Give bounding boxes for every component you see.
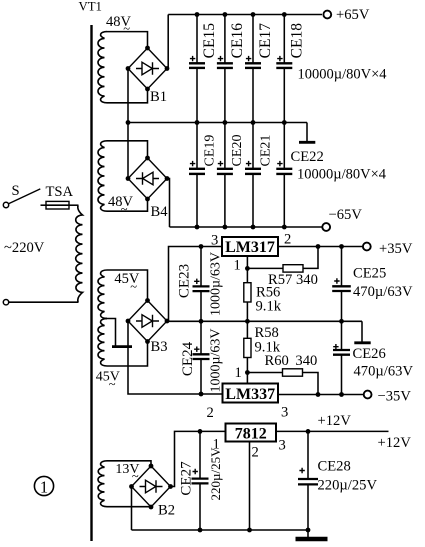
switch S blade <box>9 189 41 204</box>
svg-text:CE22: CE22 <box>291 149 324 165</box>
node CE15 top junction <box>195 12 200 17</box>
node CE22 bottom junction <box>282 225 287 230</box>
wire R60 to -35V row <box>303 373 319 395</box>
svg-text:CE27: CE27 <box>179 461 195 496</box>
svg-text:CE19: CE19 <box>202 135 217 167</box>
node CE27 top junction <box>198 429 203 434</box>
ground symbol (0V rail) <box>361 321 363 343</box>
svg-text:1: 1 <box>235 365 242 381</box>
capacitor CE24 <box>200 321 202 354</box>
node R60 bottom junction <box>316 392 321 397</box>
secondary winding 13V <box>98 461 107 507</box>
capacitor CE25 <box>341 247 343 287</box>
svg-text:CE24: CE24 <box>180 341 196 376</box>
fuse TSA <box>46 201 69 209</box>
node CE15 bottom junction <box>195 120 200 125</box>
node 7812 pin2 junction <box>247 528 252 533</box>
node R56/R58 junction <box>245 319 250 324</box>
node CE18 bottom junction <box>282 120 287 125</box>
bridge rectifier B2 <box>132 466 171 507</box>
node CE20 bottom junction <box>223 225 228 230</box>
secondary winding 45V #2 <box>98 319 107 366</box>
svg-text:3: 3 <box>279 438 286 454</box>
node CE26 bottom junction <box>339 392 344 397</box>
node CE16 top junction <box>223 12 228 17</box>
capacitor CE16 <box>224 15 226 64</box>
terminal +35V <box>363 243 371 251</box>
node CE25 top junction <box>339 244 344 249</box>
svg-text:~220V: ~220V <box>4 240 45 256</box>
resistor R57 340 <box>283 265 303 272</box>
terminal -35V <box>364 391 372 399</box>
svg-text:9.1k: 9.1k <box>256 299 282 315</box>
node R57 top junction <box>316 244 321 249</box>
wire -65V bus <box>170 226 322 228</box>
svg-text:CE16: CE16 <box>229 23 246 59</box>
node CE28 bottom junction <box>306 528 311 533</box>
terminal (AC input bottom) <box>3 300 8 305</box>
circled figure number 1 <box>34 476 53 495</box>
node CE24 bottom junction <box>199 392 204 397</box>
node CE27 bottom junction <box>198 528 203 533</box>
svg-text:R60 340: R60 340 <box>265 353 318 369</box>
wire bottom ground rail <box>132 529 309 531</box>
wire winding 13V bottom to B2 AC <box>107 506 151 508</box>
wire +65V bus <box>168 14 322 16</box>
capacitor CE28 <box>307 431 309 479</box>
wire 0V rail <box>169 320 363 322</box>
wire B4 - output down to -65V bus <box>167 179 170 228</box>
wire bottom AC input to primary winding <box>9 301 79 303</box>
capacitor CE27 <box>199 431 201 478</box>
svg-text:+12V: +12V <box>318 413 352 429</box>
regulator U1 LM317 <box>222 237 278 256</box>
wire winding 13V top to B2 AC <box>107 461 151 466</box>
svg-text:CE15: CE15 <box>201 23 218 59</box>
svg-text:10000µ/80V×4: 10000µ/80V×4 <box>298 67 388 83</box>
regulator U2 LM337 <box>223 384 279 403</box>
svg-text:+12V: +12V <box>378 435 412 451</box>
wire winding2 bottom to B4 AC <box>107 199 148 211</box>
svg-text:+65V: +65V <box>336 7 370 23</box>
wire B1 - output down to ground bus <box>127 69 129 123</box>
svg-text:TSA: TSA <box>46 184 74 200</box>
node CE23/CE24 junction <box>199 319 204 324</box>
svg-text:B1: B1 <box>150 89 167 105</box>
wire winding 45V-1 top to B3 AC <box>107 270 148 301</box>
capacitor CE22 <box>283 123 285 169</box>
svg-text:1: 1 <box>40 478 48 497</box>
svg-text:2: 2 <box>207 405 214 421</box>
capacitor CE17 <box>252 15 254 64</box>
ground symbol (bottom rail) <box>307 530 309 539</box>
svg-text:2: 2 <box>252 445 259 461</box>
svg-text:+35V: +35V <box>379 241 413 257</box>
svg-text:7812: 7812 <box>235 426 267 443</box>
svg-text:470µ/63V: 470µ/63V <box>354 363 414 379</box>
svg-text:LM317: LM317 <box>225 239 275 256</box>
svg-text:220µ/25V: 220µ/25V <box>208 447 223 501</box>
bridge rectifier B4 <box>128 158 167 199</box>
svg-text:CE18: CE18 <box>289 23 306 59</box>
node CE18 top junction <box>282 12 287 17</box>
svg-text:−65V: −65V <box>329 207 363 223</box>
svg-text:~: ~ <box>109 377 116 391</box>
capacitor CE15 <box>196 15 198 64</box>
node LM317 adj junction <box>245 266 250 271</box>
svg-text:220µ/25V: 220µ/25V <box>318 477 378 493</box>
wire switch to fuse <box>41 204 47 206</box>
svg-text:1: 1 <box>234 258 241 274</box>
wire 7812 output +12V line <box>276 430 389 432</box>
svg-text:~: ~ <box>123 21 130 35</box>
svg-text:CE20: CE20 <box>230 135 245 167</box>
capacitor CE18 <box>283 15 285 64</box>
resistor R58 9.1k <box>246 321 248 338</box>
wire B1 + output up to +65V bus <box>167 15 168 69</box>
wire ground bus between capacitor banks <box>128 122 307 124</box>
wire winding1 bottom to B1 AC- <box>107 89 148 103</box>
node CE16 bottom junction <box>223 120 228 125</box>
secondary winding 45V #1 <box>98 270 107 318</box>
resistor R56 9.1k <box>244 283 251 302</box>
node CE28 top junction <box>306 429 311 434</box>
svg-text:R57 340: R57 340 <box>268 272 318 288</box>
ground symbol (45V center tap) <box>105 319 116 347</box>
svg-text:3: 3 <box>281 405 288 421</box>
wire winding1 top to B1 AC+ <box>107 32 148 48</box>
terminal +65V <box>323 11 331 19</box>
resistor R60 340 <box>283 369 303 376</box>
svg-text:470µ/63V: 470µ/63V <box>353 284 413 300</box>
bridge rectifier B1 <box>128 48 167 89</box>
wire winding2 top to B4 AC <box>107 141 148 158</box>
svg-text:S: S <box>12 183 20 199</box>
svg-text:CE21: CE21 <box>258 135 273 167</box>
svg-text:CE23: CE23 <box>177 264 193 298</box>
svg-text:B4: B4 <box>151 204 169 220</box>
svg-text:VT1: VT1 <box>79 0 102 14</box>
secondary winding 48V #2 <box>98 141 107 211</box>
svg-text:B3: B3 <box>151 339 168 355</box>
svg-text:−35V: −35V <box>378 388 412 404</box>
wire adj to R60 <box>247 372 282 374</box>
svg-text:~: ~ <box>130 279 137 293</box>
svg-text:2: 2 <box>284 232 291 248</box>
terminal -65V <box>322 223 330 231</box>
svg-text:~: ~ <box>132 469 139 483</box>
svg-text:LM337: LM337 <box>225 386 275 403</box>
wire R56 to 0V rail <box>246 302 248 321</box>
node CE25/CE26 junction <box>339 319 344 324</box>
wire LM317 output row to +35V terminal <box>278 246 363 248</box>
regulator U3 7812 <box>226 424 277 442</box>
node CE17 bottom junction <box>251 120 256 125</box>
wire B3 - output down to LM337 input <box>128 321 223 394</box>
svg-text:CE28: CE28 <box>318 459 351 475</box>
svg-text:CE17: CE17 <box>257 23 274 59</box>
wire B2 + output up to 7812 input <box>171 431 226 486</box>
ground symbol (mid bus) <box>306 123 308 143</box>
capacitor CE21 <box>252 123 254 169</box>
svg-text:1000µ/63V: 1000µ/63V <box>209 328 224 392</box>
svg-text:3: 3 <box>211 233 218 249</box>
wire winding 45V-2 bottom to B3 AC <box>107 342 148 367</box>
capacitor CE19 <box>196 123 198 169</box>
wire B2 - output down to bottom rail <box>131 487 133 531</box>
node LM337 adj junction <box>245 370 250 375</box>
wire LM317 adj pin <box>246 256 248 283</box>
secondary winding 48V #1 <box>98 32 107 103</box>
svg-text:CE25: CE25 <box>353 266 386 282</box>
svg-text:1000µ/63V: 1000µ/63V <box>208 252 223 316</box>
capacitor CE23 <box>200 247 202 287</box>
primary winding of VT1 <box>76 205 83 302</box>
node CE17 top junction <box>251 12 256 17</box>
wire LM337 output row to -35V terminal <box>278 394 364 396</box>
svg-text:CE26: CE26 <box>353 346 386 362</box>
wire adj to R57 <box>247 267 283 269</box>
node CE23 top junction <box>199 244 204 249</box>
svg-text:B2: B2 <box>158 503 175 519</box>
capacitor CE20 <box>224 123 226 169</box>
svg-text:~: ~ <box>121 202 128 216</box>
wire fuse to primary winding <box>69 204 79 206</box>
wire 7812 ground pin to bottom rail <box>249 442 251 531</box>
wire B3 + output up to LM317 input <box>167 247 222 322</box>
capacitor CE26 <box>341 321 343 350</box>
node CE21 bottom junction <box>251 225 256 230</box>
bridge rectifier B3 <box>128 301 167 342</box>
terminal (AC input top) <box>3 202 8 207</box>
wire B4 + output up to ground bus <box>127 123 129 179</box>
wire R57 to output <box>303 247 318 269</box>
wire R58 to LM337 adj <box>246 358 248 384</box>
node CE19 bottom junction <box>195 225 200 230</box>
node B1-/B4+ junction <box>126 120 131 125</box>
transformer VT1 core <box>90 25 92 541</box>
svg-text:10000µ/80V×4: 10000µ/80V×4 <box>297 167 387 183</box>
